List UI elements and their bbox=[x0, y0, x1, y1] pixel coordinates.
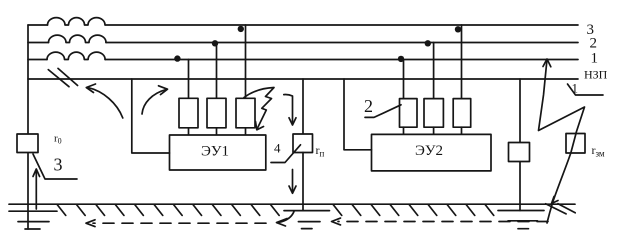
neutral earthing resistor box r0 bbox=[17, 134, 38, 153]
fuse F1 bbox=[179, 98, 198, 128]
junction node on phase 2 (ЭУ1 tap) bbox=[212, 40, 218, 46]
PEN conductor НЗП line (y=79) bbox=[28, 78, 578, 80]
hook arrow from rп ground into earth current bbox=[277, 212, 295, 227]
junction node on phase 3 (ЭУ2 tap) bbox=[455, 26, 461, 32]
svg-text:1: 1 bbox=[591, 51, 599, 67]
ground symbol below right earthing bbox=[498, 211, 544, 229]
load box ЭУ1 bbox=[170, 135, 266, 170]
PE wire from НЗП to ЭУ2 bbox=[344, 79, 372, 150]
long hatch at right end of earth bbox=[546, 204, 576, 214]
winding L1 (phase 1) bbox=[47, 52, 105, 59]
touch/fault bolt arrow into ЭУ1 bbox=[244, 88, 274, 130]
junction node on phase 1 (ЭУ2 tap) bbox=[398, 56, 404, 62]
earth hatching bbox=[57, 204, 494, 215]
wire phase2 to fuse F2 bbox=[216, 43, 218, 99]
svg-text:ЭУ2: ЭУ2 bbox=[415, 143, 443, 159]
fuse F4 bbox=[400, 99, 418, 128]
leader line of label 4 bbox=[271, 145, 301, 163]
winding L2 (phase 2) bbox=[49, 35, 107, 42]
junction node on phase 3 (ЭУ1 tap) bbox=[238, 26, 244, 32]
repeated earthing resistor box (right) bbox=[509, 143, 530, 162]
svg-text:rзм: rзм bbox=[592, 143, 605, 159]
wire fuse F6 to ЭУ2 bbox=[461, 127, 463, 134]
wire phase2 to fuse F5 bbox=[433, 43, 435, 99]
junction node on phase 2 (ЭУ2 tap) bbox=[425, 40, 431, 46]
leader line of label 1 bbox=[568, 84, 604, 95]
wire fuse F4 to ЭУ2 bbox=[403, 127, 405, 134]
svg-text:3: 3 bbox=[54, 155, 63, 175]
repeated earthing resistor box rп bbox=[293, 134, 313, 153]
break in PEN conductor (double slash) bbox=[48, 68, 77, 86]
earth fault resistance box rзм bbox=[566, 134, 585, 154]
ground symbol below r0 bbox=[9, 211, 57, 229]
svg-text:2: 2 bbox=[364, 96, 373, 116]
svg-text:4: 4 bbox=[274, 141, 281, 156]
fuse F5 bbox=[424, 99, 443, 128]
ground symbol below rп bbox=[284, 211, 330, 229]
svg-text:НЗП: НЗП bbox=[584, 68, 608, 82]
fuse F6 bbox=[453, 99, 471, 128]
PE wire from НЗП to ЭУ1 bbox=[132, 79, 170, 153]
svg-text:2: 2 bbox=[590, 36, 598, 52]
fault current curve from rзм into earth bbox=[547, 153, 571, 223]
junction node on phase 1 (ЭУ1 tap) bbox=[174, 55, 180, 61]
winding L3 (phase 3) bbox=[48, 18, 106, 25]
current flow arrow down (rп toward earth, lower) bbox=[289, 170, 296, 194]
wire fuse F1 to ЭУ1 bbox=[188, 128, 190, 135]
phase line 1 (y=59.5) bbox=[28, 59, 578, 61]
svg-text:r0: r0 bbox=[54, 133, 62, 146]
wire phase1 to fuse F1 bbox=[188, 60, 190, 99]
earth current dashed arrow (left run) bbox=[86, 220, 266, 227]
wire fuse F2 to ЭУ1 bbox=[216, 128, 218, 135]
wire phase3 to fuse F3 bbox=[245, 25, 247, 98]
fuse F3 bbox=[236, 98, 255, 128]
earth current dashed arrow (right run) bbox=[332, 218, 549, 225]
wire phase1 to fuse F4 bbox=[403, 60, 405, 99]
fault path through rзм box bbox=[571, 134, 576, 154]
load box ЭУ2 bbox=[372, 134, 492, 171]
svg-text:ЭУ1: ЭУ1 bbox=[201, 144, 229, 160]
wire rп box to earth bbox=[302, 153, 304, 211]
phase line 3 (top, y=25) bbox=[28, 24, 578, 26]
leader line of label 2 bbox=[365, 105, 401, 118]
current flow arrow down (НЗП toward rп, upper) bbox=[284, 95, 296, 125]
wire fuse F3 to ЭУ1 bbox=[245, 128, 247, 135]
wire fuse F5 to ЭУ2 bbox=[433, 127, 435, 134]
phase line 2 (y=42.5) bbox=[28, 42, 578, 44]
wire НЗП to repeated earthing (right) bbox=[519, 79, 521, 211]
wire phase3 to fuse F6 bbox=[461, 25, 463, 99]
earth surface line bbox=[9, 203, 575, 205]
current arrow toward transformer (curved, left of break) bbox=[86, 84, 123, 118]
current arrow from ЭУ1 side (curved, right of break) bbox=[142, 86, 168, 114]
wire НЗП to rп box bbox=[302, 79, 304, 134]
fuse F2 bbox=[207, 98, 226, 128]
leader line of label 3 bbox=[33, 154, 77, 179]
svg-text:rп: rп bbox=[316, 143, 325, 159]
current flow arrow up (r0 branch) bbox=[33, 169, 40, 209]
neutral bus wire (transformer star point, left vertical) bbox=[27, 25, 29, 229]
fault bolt arrow from rзм to phase 1 bbox=[539, 59, 585, 133]
